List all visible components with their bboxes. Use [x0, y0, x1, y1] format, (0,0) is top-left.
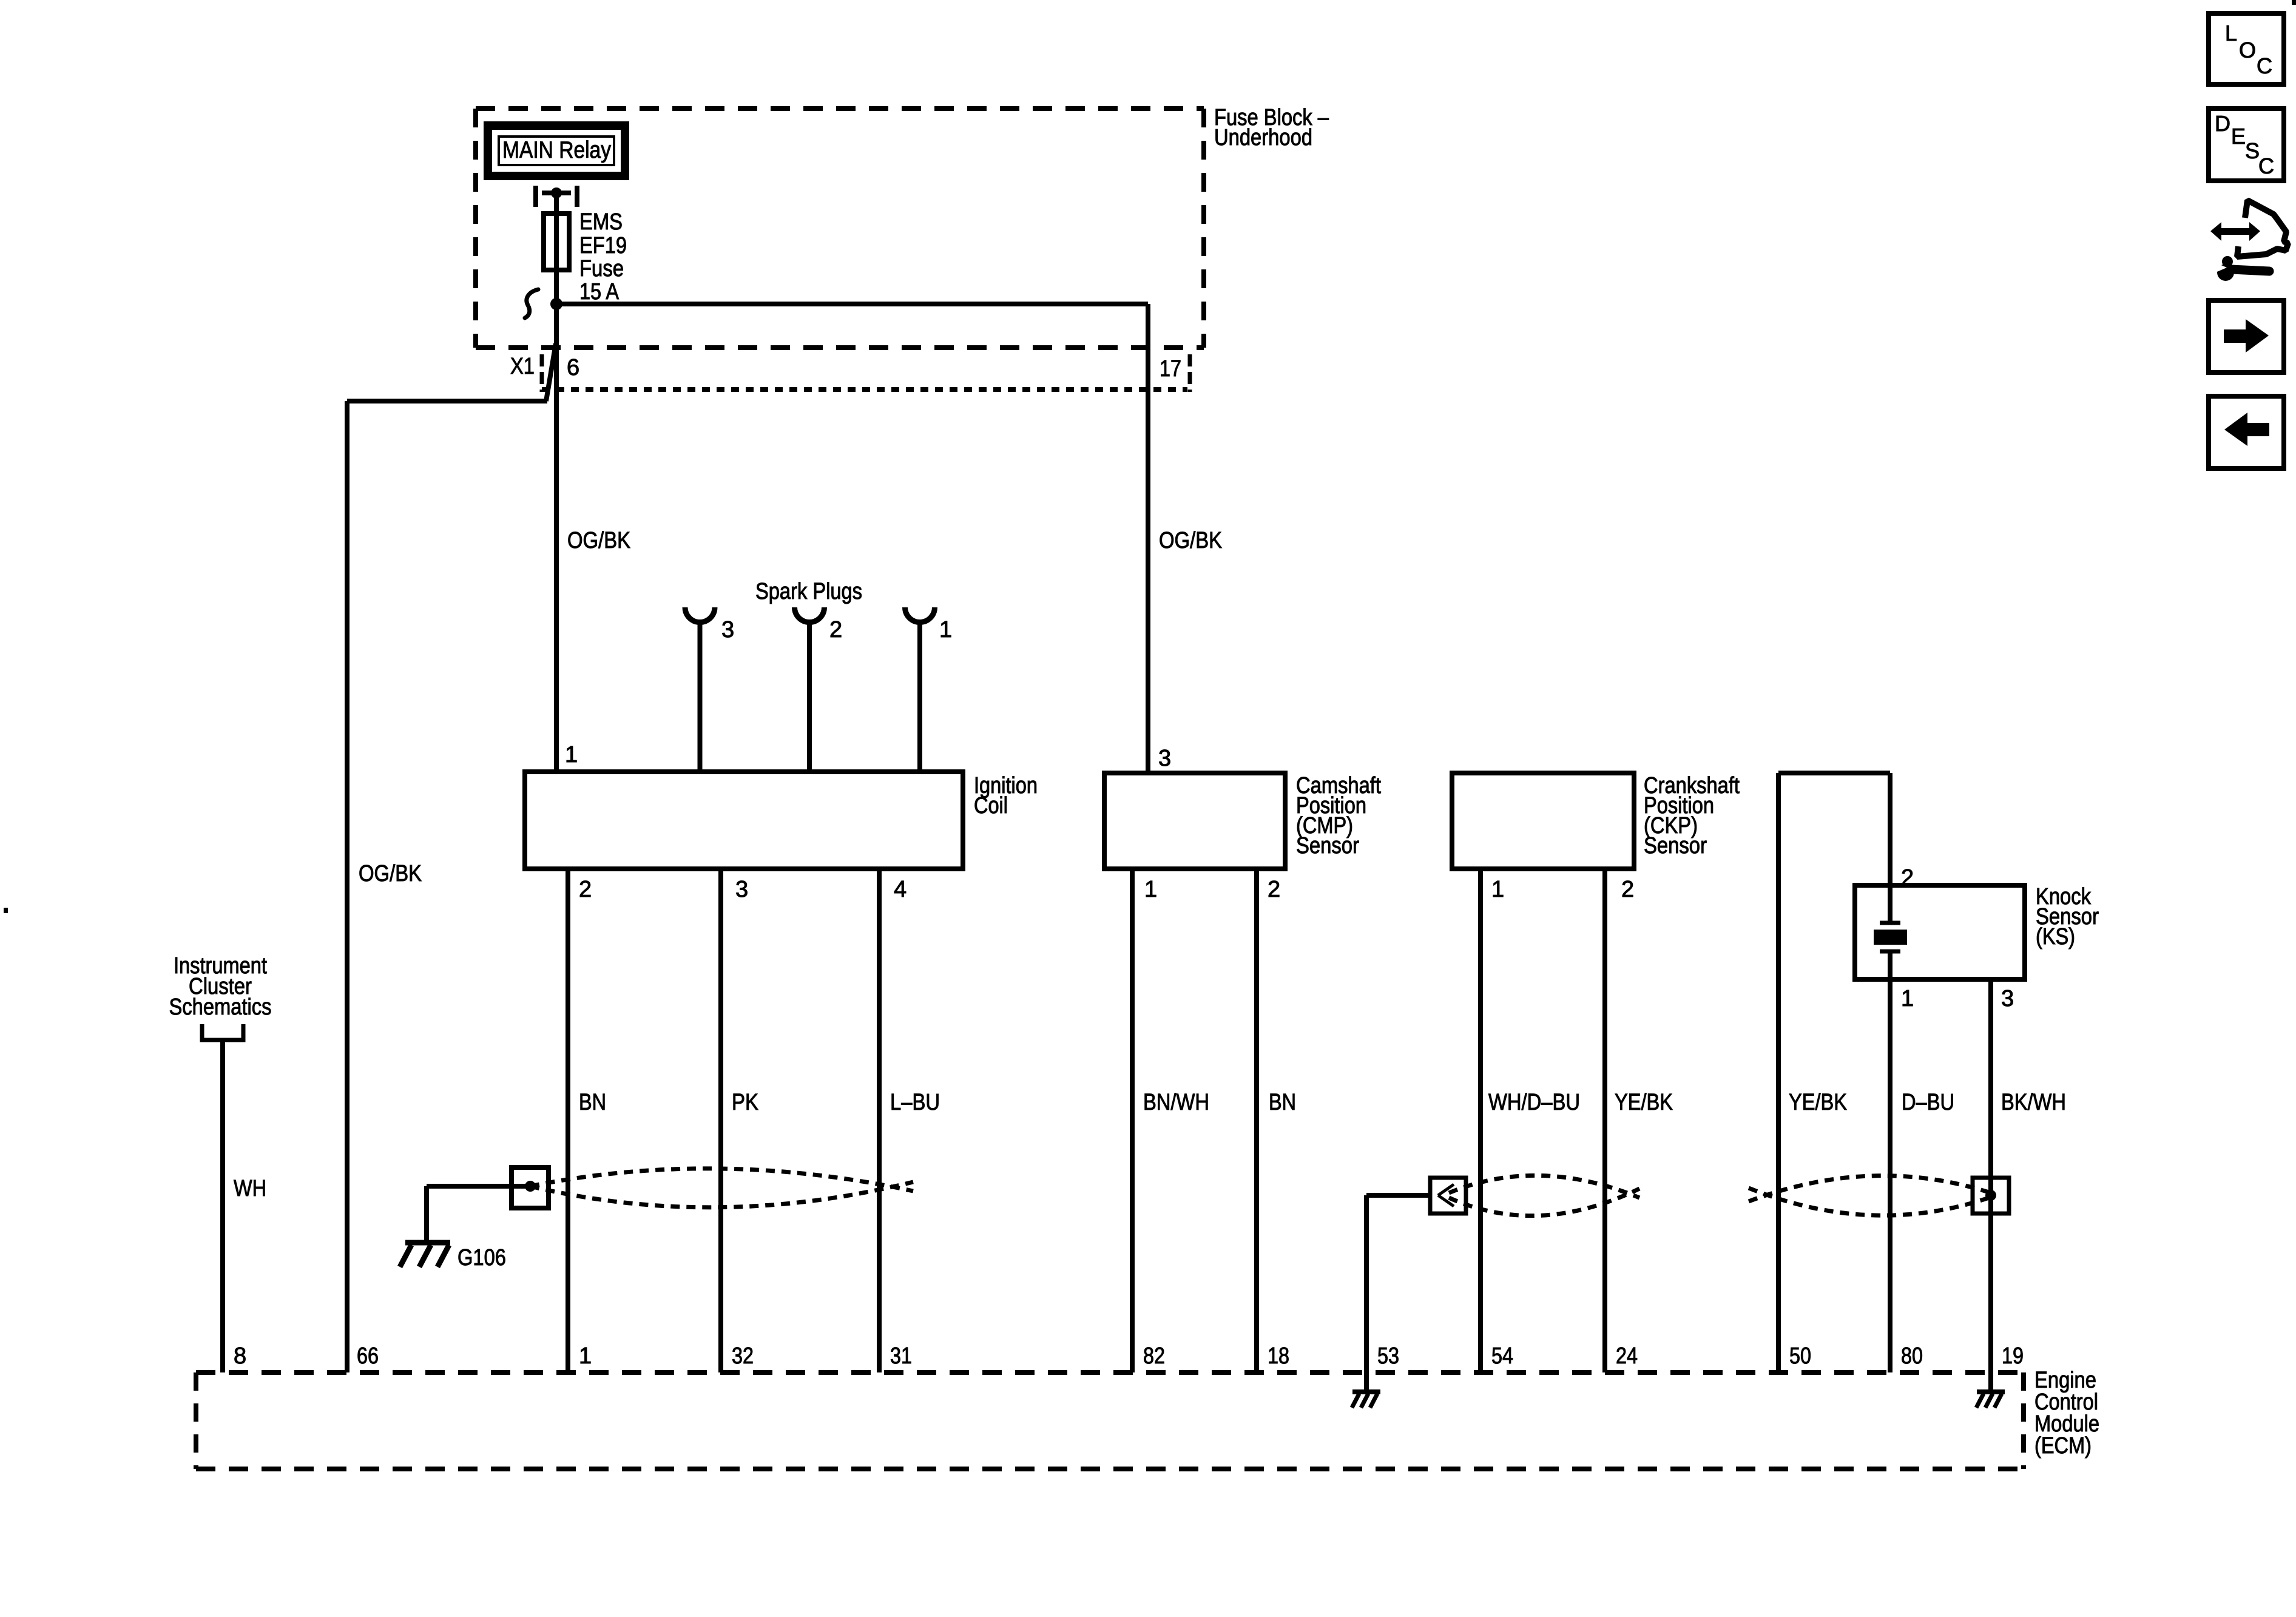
icon box LOC [2209, 13, 2284, 84]
icon box DESC [2209, 109, 2284, 181]
svg-text:WH/D–BU: WH/D–BU [1488, 1090, 1580, 1115]
connector grommet hook [525, 289, 538, 318]
fuse block - underhood dashed box [476, 109, 1204, 348]
back arrow [2224, 413, 2269, 446]
svg-text:1: 1 [579, 1343, 592, 1369]
svg-text:Sensor: Sensor [1296, 833, 1359, 859]
svg-text:BN: BN [579, 1090, 606, 1115]
svg-text:O: O [2239, 38, 2256, 62]
wire relay to junction through fuse [554, 193, 559, 304]
svg-text:C: C [2258, 154, 2274, 178]
svg-text:3: 3 [2001, 986, 2014, 1011]
wire BN/WH CMP pin 1 to ECM pin 82 [1130, 869, 1135, 1372]
shield drain chevron (CKP) [1438, 1184, 1454, 1206]
junction node fused B+ [550, 298, 562, 310]
wire WH/D-BU CKP pin 1 to ECM pin 54 [1478, 869, 1483, 1372]
svg-text:C: C [2257, 53, 2272, 78]
svg-text:OG/BK: OG/BK [359, 861, 422, 886]
svg-text:66: 66 [357, 1343, 379, 1369]
camshaft position CMP sensor box [1104, 773, 1285, 869]
knock sensor piezo element [1874, 885, 1907, 979]
svg-text:EF19: EF19 [579, 233, 627, 258]
shield drain wire to G106 [427, 1184, 530, 1189]
forward arrow [2224, 319, 2269, 353]
svg-text:BN: BN [1269, 1090, 1296, 1115]
svg-text:(KS): (KS) [2036, 924, 2075, 950]
svg-text:X1: X1 [510, 354, 535, 379]
shield ellipse around CKP wires [1449, 1175, 1639, 1215]
svg-text:G106: G106 [458, 1245, 506, 1271]
svg-text:(ECM): (ECM) [2034, 1433, 2092, 1459]
connector X1 separator left [540, 354, 544, 392]
off-page connector bracket [202, 1024, 243, 1040]
wire BN CMP pin 2 to ECM pin 18 [1254, 869, 1259, 1372]
svg-text:D: D [2215, 111, 2230, 136]
svg-text:24: 24 [1616, 1343, 1638, 1369]
svg-text:Coil: Coil [974, 793, 1008, 819]
ground symbol at ECM pin 53 [1352, 1392, 1380, 1408]
wire WH to ECM pin 8 [220, 1040, 225, 1372]
icon hand with wrench (adjust) [2209, 200, 2288, 281]
svg-text:PK: PK [732, 1090, 758, 1115]
icon box back arrow [2209, 396, 2284, 468]
engine control module ECM dashed box [196, 1372, 2024, 1469]
svg-text:Underhood: Underhood [1214, 125, 1312, 150]
svg-text:3: 3 [735, 877, 748, 902]
svg-text:2: 2 [829, 617, 842, 643]
svg-text:82: 82 [1143, 1343, 1165, 1369]
shield drain wire to ECM pin 53 ground [1364, 1195, 1369, 1393]
svg-text:2: 2 [579, 877, 592, 902]
page corner mark [2292, 0, 2296, 5]
icon box forward arrow [2209, 300, 2284, 373]
connector X1 separator right [1188, 354, 1192, 392]
svg-text:OG/BK: OG/BK [1159, 528, 1222, 553]
svg-text:32: 32 [732, 1343, 754, 1369]
wire OG/BK junction down to ignition coil pin 1 [554, 304, 559, 772]
shield drain connector box (coil) [512, 1167, 549, 1208]
svg-text:Schematics: Schematics [169, 994, 272, 1020]
shield drain connector box (CKP) [1430, 1178, 1466, 1214]
wire D-BU knock pin 1 to ECM pin 80 [1888, 979, 1893, 1372]
svg-text:19: 19 [2002, 1343, 2024, 1369]
svg-text:Sensor: Sensor [1644, 833, 1707, 859]
relay K: MAIN Relay box [488, 126, 625, 176]
wire L-BU coil pin 4 to ECM pin 31 [877, 869, 882, 1372]
svg-text:S: S [2245, 138, 2260, 163]
svg-text:15 A: 15 A [579, 279, 620, 305]
svg-text:80: 80 [1901, 1343, 1923, 1369]
ground G106 symbol [400, 1243, 450, 1267]
svg-text:31: 31 [890, 1343, 912, 1369]
ground symbol at ECM pin 19 [1976, 1392, 2005, 1408]
shield ellipse around coil wires [530, 1169, 913, 1207]
svg-text:1: 1 [1901, 986, 1914, 1011]
wire OG/BK down to ECM pin 66 [345, 401, 349, 1372]
svg-text:6: 6 [567, 355, 579, 380]
ignition coil box [525, 772, 963, 869]
svg-text:53: 53 [1377, 1343, 1399, 1369]
svg-text:L–BU: L–BU [890, 1090, 940, 1115]
svg-text:3: 3 [1158, 746, 1171, 771]
spark plug 2 [795, 607, 825, 772]
svg-text:1: 1 [1491, 877, 1504, 902]
knock sensor KS box [1855, 885, 2025, 979]
svg-text:D–BU: D–BU [1902, 1090, 1954, 1115]
svg-text:OG/BK: OG/BK [567, 528, 630, 553]
crankshaft position CKP sensor box [1452, 773, 1634, 869]
svg-text:2: 2 [1268, 877, 1280, 902]
svg-text:WH: WH [234, 1176, 266, 1201]
shield drain connector box (knock) [1973, 1178, 2009, 1214]
spark plug 1 [905, 607, 935, 772]
spark plug 3 [685, 607, 715, 772]
svg-text:E: E [2231, 124, 2246, 149]
svg-text:L: L [2225, 21, 2237, 46]
wire OG/BK pin 17 down to CMP sensor pin 3 [1146, 304, 1150, 773]
svg-text:17: 17 [1160, 356, 1181, 382]
shield ellipse around knock sensor wires [1749, 1176, 1991, 1215]
svg-text:2: 2 [1621, 877, 1634, 902]
svg-text:4: 4 [894, 877, 907, 902]
shield drain wire (CKP) [1366, 1193, 1430, 1198]
svg-text:3: 3 [721, 617, 734, 643]
svg-text:1: 1 [1144, 877, 1157, 902]
svg-text:Fuse: Fuse [579, 256, 624, 282]
svg-text:8: 8 [234, 1343, 246, 1369]
wire knock sensor pin 2 top run [1778, 771, 1890, 775]
wire through connector X1 pin 6 (slant) [546, 343, 556, 401]
svg-text:BK/WH: BK/WH [2001, 1090, 2066, 1115]
wire BN coil pin 2 to ECM pin 1 [566, 869, 570, 1372]
svg-text:1: 1 [939, 617, 952, 643]
svg-text:EMS: EMS [579, 209, 623, 235]
shield drain junction (coil) [525, 1181, 536, 1192]
wire PK coil pin 3 to ECM pin 32 [718, 869, 723, 1372]
svg-text:18: 18 [1268, 1343, 1289, 1369]
svg-text:YE/BK: YE/BK [1789, 1090, 1847, 1115]
page edge dot [4, 908, 8, 913]
fuse EMS EF19 15A symbol [544, 214, 569, 270]
wire junction to fuse block pin 17 [556, 302, 1148, 306]
fuse block connector strip dotted line [542, 387, 1187, 392]
wire YE/BK CKP pin 2 to ECM pin 24 [1602, 869, 1607, 1372]
shield drain wire drop to G106 [424, 1186, 429, 1243]
svg-text:MAIN Relay: MAIN Relay [502, 137, 611, 163]
shield drain junction (knock) [1985, 1190, 1996, 1201]
wire horizontal branch to pin 66 [347, 399, 547, 403]
svg-text:1: 1 [565, 742, 578, 768]
wire BK/WH knock pin 3 to ECM pin 19 ground [1988, 979, 1993, 1393]
wire knock pin 2 drop [1888, 773, 1893, 885]
svg-text:BN/WH: BN/WH [1143, 1090, 1209, 1115]
svg-text:54: 54 [1491, 1343, 1513, 1369]
wire YE/BK knock pin 2 to ECM pin 50 [1776, 773, 1781, 1372]
relay output terminal bracket [536, 186, 577, 207]
svg-text:50: 50 [1789, 1343, 1811, 1369]
svg-text:YE/BK: YE/BK [1615, 1090, 1673, 1115]
svg-text:Spark Plugs: Spark Plugs [755, 579, 862, 604]
